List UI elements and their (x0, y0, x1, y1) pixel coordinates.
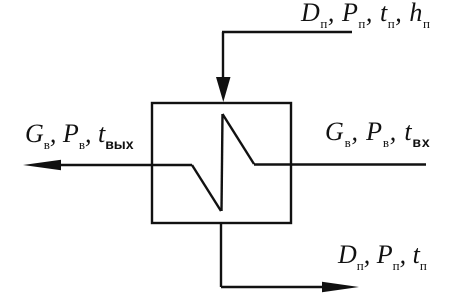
arrowhead: water outlet arrow pointing left (23, 160, 61, 170)
heating surface diagonal right (inside box) (223, 114, 255, 164)
heat exchanger body (surface heater) box (152, 103, 291, 223)
wire: steam inlet horizontal segment (top) (222, 31, 352, 33)
wire: condensate outlet vertical segment (bottom) (220, 223, 222, 287)
heating surface diagonal left (inside box) (192, 165, 221, 211)
heating surface vertical (inside box) (222, 114, 223, 211)
svg-text:Gв, Pв, tвых: Gв, Pв, tвых (25, 119, 134, 152)
wire: water line right segment (inside box to right edge of figure) (254, 163, 426, 165)
wire: condensate outlet horizontal segment (221, 286, 326, 288)
svg-text:Dп, Pп, tп, hп: Dп, Pп, tп, hп (300, 0, 430, 31)
svg-text:Gв, Pв, tвх: Gв, Pв, tвх (325, 117, 430, 150)
svg-text:Dп, Pп, tп: Dп, Pп, tп (337, 240, 427, 273)
wire: water line left segment (inside box to left arrow) (57, 164, 192, 166)
arrowhead: condensate outlet arrow pointing right (322, 282, 359, 292)
arrowhead: steam inlet arrow pointing down into box (216, 77, 231, 102)
wire: steam inlet vertical segment (222, 32, 224, 82)
